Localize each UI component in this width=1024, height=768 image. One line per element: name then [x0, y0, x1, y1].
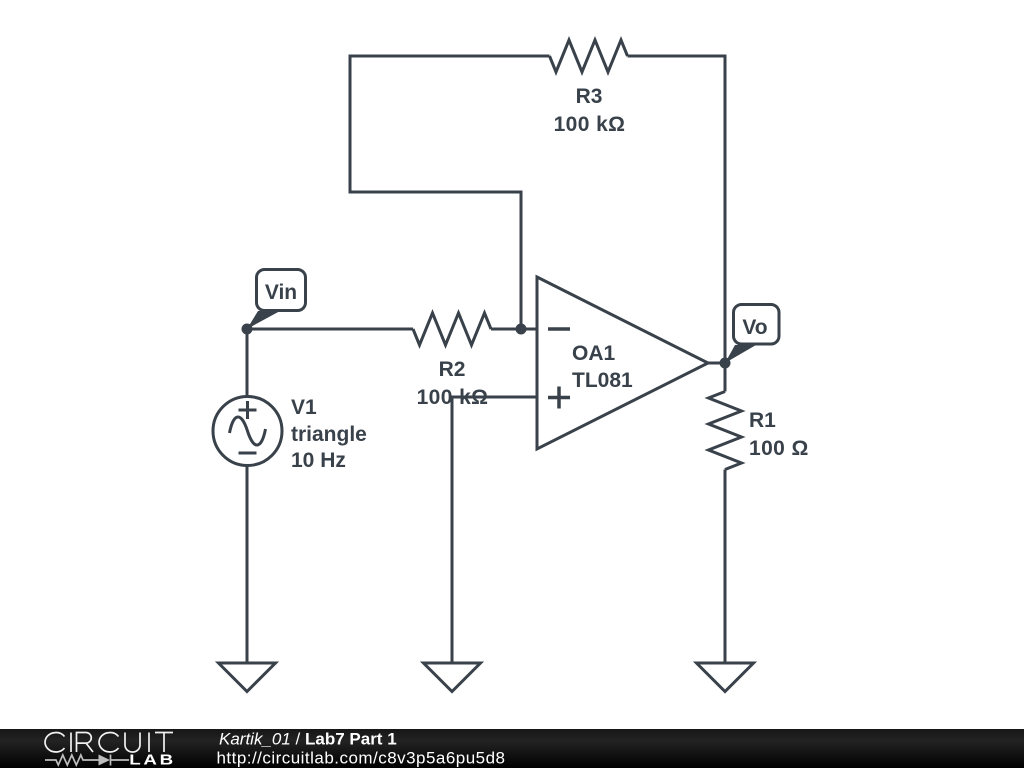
wire non-inverting input horizontal — [452, 396, 537, 399]
wire feedback lower horizontal — [349, 191, 522, 194]
svg-text:triangle: triangle — [291, 423, 367, 446]
node A (Vin junction) — [242, 324, 253, 335]
V1 minus sign — [239, 452, 257, 455]
op-amp U1 triangle — [537, 277, 708, 449]
logo CIRCUIT wordmark — [45, 733, 173, 753]
wire feedback right vertical — [724, 55, 727, 364]
ground G1 (below V1) — [219, 663, 276, 692]
svg-text:Vin: Vin — [265, 281, 297, 304]
wire non-inverting input vertical to ground — [451, 396, 454, 664]
flag Vin tail — [247, 311, 280, 329]
voltage source V1 circle — [213, 397, 282, 466]
U — [125, 733, 140, 753]
svg-text:V1: V1 — [291, 396, 317, 419]
svg-text:R2: R2 — [439, 358, 466, 381]
wire Vin node to V1 top — [246, 329, 249, 397]
svg-text:Vo: Vo — [742, 316, 767, 339]
flag Vin box — [257, 270, 306, 311]
svg-text:http://circuitlab.com/c8v3p5a6: http://circuitlab.com/c8v3p5a6pu5d8 — [217, 749, 506, 768]
wire op-amp output — [708, 362, 725, 365]
logo diode triangle — [99, 755, 111, 766]
C1 — [45, 733, 65, 752]
logo LAB text — [129, 751, 176, 768]
wire feedback top horizontal right of R3 — [628, 55, 727, 58]
resistor R2 — [413, 313, 491, 345]
svg-text:100 kΩ: 100 kΩ — [554, 113, 626, 136]
svg-text:100 kΩ: 100 kΩ — [417, 386, 489, 409]
T — [155, 733, 173, 753]
flag Vo box — [734, 305, 780, 345]
wire feedback top-left vertical — [349, 56, 352, 192]
svg-text:R3: R3 — [576, 85, 603, 108]
V1 sine wave — [230, 417, 266, 445]
node C (output junction) — [720, 358, 731, 369]
flag Vo tail — [725, 345, 756, 363]
wire V1 bottom to ground — [246, 466, 249, 664]
svg-text:10 Hz: 10 Hz — [291, 449, 346, 472]
logo resistor-diode glyph — [45, 755, 129, 766]
footer bar — [0, 729, 1024, 768]
op-amp minus input sign — [548, 327, 570, 331]
svg-text:R1: R1 — [749, 409, 776, 432]
wire feedback into inverting node — [520, 191, 523, 330]
wire output node to R1 — [724, 363, 727, 392]
op-amp plus input sign — [548, 387, 570, 409]
svg-text:TL081: TL081 — [572, 369, 633, 392]
wire feedback top horizontal left of R3 — [349, 55, 550, 58]
node B (inverting input junction) — [516, 324, 527, 335]
ground G2 (below R2 non-inverting) — [424, 663, 481, 692]
svg-text:Kartik_01 / Lab7 Part 1: Kartik_01 / Lab7 Part 1 — [219, 730, 397, 749]
I2 — [148, 733, 150, 753]
wire Vin to R2 — [247, 328, 413, 331]
ground G3 (below R1) — [697, 663, 754, 692]
wire R1 to ground — [724, 470, 727, 664]
wire R2 to op-amp inverting input — [491, 328, 537, 331]
svg-text:LAB: LAB — [129, 751, 176, 768]
R — [77, 733, 94, 753]
I1 — [70, 733, 72, 753]
V1 plus sign — [239, 401, 257, 419]
svg-text:OA1: OA1 — [572, 342, 616, 365]
resistor R1 — [709, 392, 742, 470]
C2 — [99, 733, 119, 752]
svg-text:100 Ω: 100 Ω — [749, 437, 809, 460]
resistor R3 — [550, 40, 628, 72]
